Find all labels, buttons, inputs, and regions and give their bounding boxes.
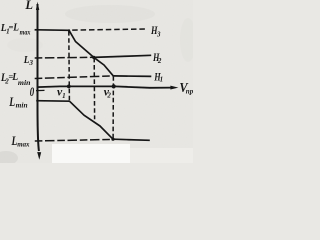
node blob H2-diagonal junction [92,56,95,59]
tick origin 0 [36,89,45,91]
curve upper: Lmax horizontal segment [37,29,69,32]
svg-text:min: min [18,79,31,87]
arrow up (top of L axis) [36,2,39,10]
node blob upper corner [68,29,70,31]
axis L (vertical) [38,4,39,151]
H2 solid line [94,55,151,57]
svg-text:1: 1 [160,76,164,84]
dashed vertical v2 [112,76,114,139]
svg-text:2: 2 [106,91,111,99]
svg-text:min: min [16,101,28,109]
curve upper: diagonal [69,30,113,76]
curve lower: Lmin horizontal segment [36,100,69,103]
svg-text:L: L [12,22,19,33]
arrow down (bottom of L axis) [37,152,41,160]
node dot v1 on axis [67,85,71,89]
node blob lower corner [111,138,114,141]
faint scan smudges [65,5,155,23]
H1 solid line [113,75,151,78]
tick L1=Lmax level [35,29,38,31]
svg-text:1: 1 [62,92,66,100]
svg-text:пр: пр [186,86,193,95]
axis V (horizontal) [37,86,172,87]
svg-text:3: 3 [156,30,161,38]
H3 dashed line [72,29,145,30]
L2 dashed line with axis tick [35,76,114,79]
svg-text:L: L [9,95,16,109]
L3 dashed line with axis tick [35,56,94,59]
dashed vertical mid (H2 junction down to lower diagonal) [93,58,95,120]
svg-text:max: max [20,29,31,37]
Lmax bottom dashed line with axis tick [35,139,112,141]
curve lower: diagonal [70,101,114,139]
svg-text:0: 0 [30,85,34,99]
curve lower: bottom horizontal segment [113,139,150,140]
arrow right (end of V axis) [170,86,178,90]
paper background [0,0,193,163]
dashed vertical v1 [68,31,71,101]
svg-text:L: L [24,0,33,12]
svg-text:3: 3 [28,59,33,67]
node dot v2 on axis [112,84,116,88]
svg-text:2: 2 [157,57,162,65]
white patch bottom center [52,144,130,163]
svg-text:max: max [17,141,30,149]
